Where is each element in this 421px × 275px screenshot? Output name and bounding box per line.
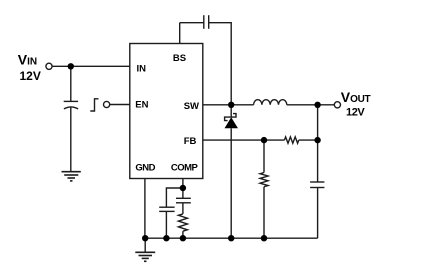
node R1/VOUT junction (314, 137, 320, 143)
wire inductor to VOUT terminal (287, 104, 334, 106)
svg-text:12V: 12V (20, 69, 41, 83)
wire FB node down to R2 (263, 140, 265, 172)
inductor L1 (254, 100, 287, 105)
wire R1 to VOUT line (299, 139, 318, 141)
wire diode from SW node down (230, 105, 232, 117)
wire ground stub below GND (144, 238, 146, 252)
wire diode anode to ground rail (230, 128, 232, 238)
wire VOUT node down to output cap (317, 105, 319, 182)
wire input cap to ground (70, 107, 72, 172)
node VOUT junction (314, 102, 320, 108)
svg-text:IN: IN (137, 63, 147, 74)
node VIN junction (68, 63, 74, 69)
node diode rail junction (228, 235, 234, 241)
wire input cap branch down from VIN node (70, 66, 72, 101)
node SW junction (228, 102, 234, 108)
svg-text:GND: GND (135, 162, 155, 173)
wire COMP pin down (182, 179, 184, 199)
wire bootstrap cap to SW node (209, 23, 232, 105)
node C4 rail junction (163, 235, 169, 241)
wire SW pin to SW node (203, 104, 254, 106)
terminal VOUT (open circle) (334, 102, 340, 108)
wire VIN terminal to IN pin (52, 65, 130, 67)
wire C5 to R3 (182, 203, 184, 214)
terminal VIN (open circle) (46, 63, 52, 69)
capacitor C2 (bootstrap) (203, 15, 205, 29)
wire BS pin up from IC top (179, 23, 181, 44)
terminal EN (open circle) (104, 101, 110, 107)
svg-text:12V: 12V (346, 106, 365, 118)
svg-text:COMP: COMP (171, 162, 199, 173)
wire BS to bootstrap cap (180, 22, 204, 24)
wire COMP node left branch (166, 188, 183, 207)
ground (input) (62, 172, 81, 181)
resistor R1 (FB to VOUT) (284, 137, 298, 143)
wire EN terminal to EN pin (110, 104, 130, 106)
wire FB pin to FB node (203, 139, 285, 141)
capacitor C3 (output) (310, 181, 324, 183)
capacitor C4 (COMP parallel) (159, 206, 174, 208)
capacitor C1 (input, polarized) (64, 100, 78, 102)
capacitor C5 (COMP series) (176, 197, 191, 199)
node COMP junction (180, 185, 186, 191)
op-amp U1 (regulator IC body) (130, 44, 203, 179)
svg-text:FB: FB (184, 136, 197, 147)
ground (main) (135, 252, 155, 261)
node GND rail junction (142, 235, 148, 241)
node R2 rail junction (261, 235, 267, 241)
wire R2 to ground rail (263, 187, 265, 239)
wire GND pin down (144, 179, 146, 239)
diode D1 (Schottky) (225, 114, 236, 121)
svg-text:SW: SW (184, 101, 199, 112)
node FB junction (261, 137, 267, 143)
resistor R3 (COMP series) (178, 214, 187, 231)
node R3 rail junction (180, 235, 186, 241)
resistor R2 (FB lower divider) (260, 173, 268, 187)
wire ground rail (145, 237, 317, 239)
wire output cap to ground rail (317, 188, 319, 239)
EN step waveform symbol (90, 99, 98, 111)
svg-text:EN: EN (135, 100, 148, 111)
svg-text:BS: BS (173, 53, 186, 64)
wire C4 to ground rail (165, 211, 167, 238)
wire R3 to ground rail (182, 231, 184, 238)
